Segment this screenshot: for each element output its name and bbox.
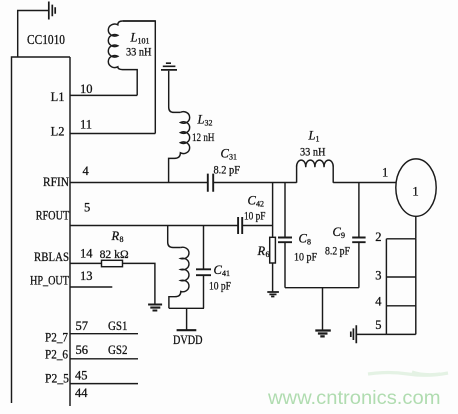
svg-text:10 pF: 10 pF bbox=[209, 279, 231, 293]
svg-text:RBLAS: RBLAS bbox=[34, 250, 69, 264]
wire junction down to R6 bbox=[272, 183, 274, 238]
inductor L32 12 nH bbox=[169, 112, 190, 183]
svg-text:82 kΩ: 82 kΩ bbox=[100, 247, 129, 261]
svg-text:RFOUT: RFOUT bbox=[36, 209, 70, 223]
svg-text:32: 32 bbox=[205, 119, 213, 128]
watermark bbox=[368, 372, 448, 375]
wire R8 to ground bbox=[123, 263, 155, 304]
wire pin 13 HP_OUT stub bbox=[70, 286, 112, 288]
resistor R8 82 kOhm bbox=[102, 260, 123, 266]
svg-text:10 pF: 10 pF bbox=[294, 250, 317, 264]
svg-text:P2_5: P2_5 bbox=[45, 372, 69, 386]
wire C9 bottom bbox=[358, 242, 360, 288]
svg-text:5: 5 bbox=[375, 318, 381, 332]
svg-text:44: 44 bbox=[75, 386, 88, 400]
ground (rotated, near connector pin 5) bbox=[351, 325, 357, 343]
wire pin 10 L1 bbox=[70, 94, 137, 96]
svg-text:GS1: GS1 bbox=[108, 319, 128, 333]
wire DVDD rail bbox=[169, 307, 204, 309]
svg-text:L: L bbox=[308, 129, 316, 143]
svg-text:R: R bbox=[257, 244, 266, 258]
ground (inverted, above L32) bbox=[161, 63, 177, 70]
svg-text:www.cntronics.com: www.cntronics.com bbox=[267, 388, 441, 409]
wire DVDD stub bbox=[186, 308, 188, 329]
capacitor C31 8.2 pF bbox=[208, 174, 213, 192]
svg-text:P2_6: P2_6 bbox=[45, 348, 68, 362]
svg-text:R: R bbox=[111, 229, 120, 243]
svg-text:L2: L2 bbox=[51, 125, 65, 139]
svg-text:12 nH: 12 nH bbox=[192, 130, 215, 144]
wire pin 14 RBLAS to R8 bbox=[70, 262, 102, 264]
wire from CC1010 top to AVDD ground stub bbox=[18, 11, 49, 58]
svg-text:9: 9 bbox=[341, 231, 345, 240]
wire C31 to L1 bbox=[213, 182, 296, 184]
svg-text:4: 4 bbox=[83, 164, 90, 178]
ground (bottom centre) bbox=[315, 331, 331, 337]
svg-text:2: 2 bbox=[375, 230, 381, 244]
svg-text:10 pF: 10 pF bbox=[244, 209, 266, 223]
capacitor C8 10 pF bbox=[278, 238, 292, 243]
svg-text:8.2 pF: 8.2 pF bbox=[325, 244, 350, 258]
svg-text:42: 42 bbox=[256, 200, 264, 209]
wire L1 to antenna pin 1 bbox=[333, 182, 396, 184]
wire pin 11 L2 bbox=[70, 133, 155, 135]
antenna E1 bbox=[396, 159, 436, 216]
svg-text:31: 31 bbox=[229, 153, 237, 162]
svg-text:GS2: GS2 bbox=[108, 343, 128, 357]
svg-text:14: 14 bbox=[80, 247, 93, 261]
wire rail to ground bbox=[322, 288, 324, 330]
wire pin 5 to ground bbox=[356, 333, 386, 335]
svg-text:1: 1 bbox=[382, 166, 388, 180]
resistor R6 bbox=[270, 237, 276, 263]
wire C41 bottom to DVDD rail bbox=[203, 276, 205, 309]
wire ground rail C8-C9 bbox=[285, 287, 359, 289]
svg-text:5: 5 bbox=[84, 201, 90, 215]
wire C8 bottom bbox=[284, 242, 286, 288]
svg-text:56: 56 bbox=[76, 343, 89, 357]
svg-text:CC1010: CC1010 bbox=[27, 32, 65, 47]
svg-text:13: 13 bbox=[80, 269, 93, 283]
inductor L101 33 nH bbox=[108, 21, 155, 95]
ground (below R8 wire) bbox=[148, 305, 162, 311]
inductor L1 33 nH bbox=[297, 160, 334, 183]
svg-text:45: 45 bbox=[75, 369, 88, 383]
wire pin 57 GS1 bbox=[70, 333, 138, 335]
op-amp U1 : CC1010 chip body outline bbox=[12, 57, 71, 406]
wire junction down to C9 bbox=[358, 183, 360, 238]
power DVDD bar bbox=[177, 329, 197, 331]
svg-text:1: 1 bbox=[316, 135, 320, 144]
svg-text:L: L bbox=[197, 113, 205, 127]
capacitor C42 10 pF bbox=[238, 217, 242, 234]
wire pin 4 RFIN to C31 bbox=[70, 182, 208, 184]
ground (below R6) bbox=[267, 292, 279, 297]
svg-text:6: 6 bbox=[266, 250, 270, 259]
svg-text:RFIN: RFIN bbox=[43, 175, 69, 189]
svg-text:8: 8 bbox=[120, 235, 124, 244]
svg-text:L1: L1 bbox=[51, 90, 65, 104]
wire junction down to C8 bbox=[284, 183, 286, 238]
wire pin 5 RFOUT to C42 bbox=[70, 225, 238, 227]
wire RFOUT junction down to DVDD coil bbox=[168, 226, 181, 248]
svg-text:8.2 pF: 8.2 pF bbox=[214, 163, 241, 177]
ground (rotated, top-left) bbox=[49, 2, 55, 20]
svg-text:DVDD: DVDD bbox=[173, 332, 203, 347]
svg-text:10: 10 bbox=[80, 82, 93, 96]
svg-text:1: 1 bbox=[412, 184, 419, 199]
svg-text:33 nH: 33 nH bbox=[300, 145, 326, 159]
svg-text:3: 3 bbox=[375, 268, 381, 282]
svg-text:33 nH: 33 nH bbox=[126, 45, 152, 59]
wire C41 top bbox=[203, 226, 205, 270]
wire R6 to ground bbox=[272, 263, 274, 292]
capacitor C9 8.2 pF bbox=[352, 238, 365, 243]
inductor L41 (DVDD choke) bbox=[169, 247, 189, 308]
svg-text:41: 41 bbox=[222, 269, 230, 278]
wire antenna bottom to connector bbox=[415, 216, 417, 239]
connector J1 body bbox=[386, 239, 415, 335]
wire ground to L32 top bbox=[169, 71, 181, 113]
svg-text:HP_OUT: HP_OUT bbox=[30, 274, 69, 288]
svg-text:4: 4 bbox=[375, 295, 382, 309]
svg-text:11: 11 bbox=[80, 118, 92, 132]
wire pin 45 bbox=[70, 383, 138, 385]
svg-text:8: 8 bbox=[307, 238, 311, 247]
svg-text:L: L bbox=[130, 31, 138, 45]
wire C42 to junction bbox=[242, 225, 272, 227]
svg-text:P2_7: P2_7 bbox=[45, 331, 68, 345]
wire pin 56 GS2 bbox=[70, 358, 138, 360]
wire L101 top to node / vertical to L2 bbox=[123, 21, 155, 134]
svg-text:57: 57 bbox=[76, 319, 89, 333]
capacitor C41 10 pF bbox=[196, 269, 211, 275]
